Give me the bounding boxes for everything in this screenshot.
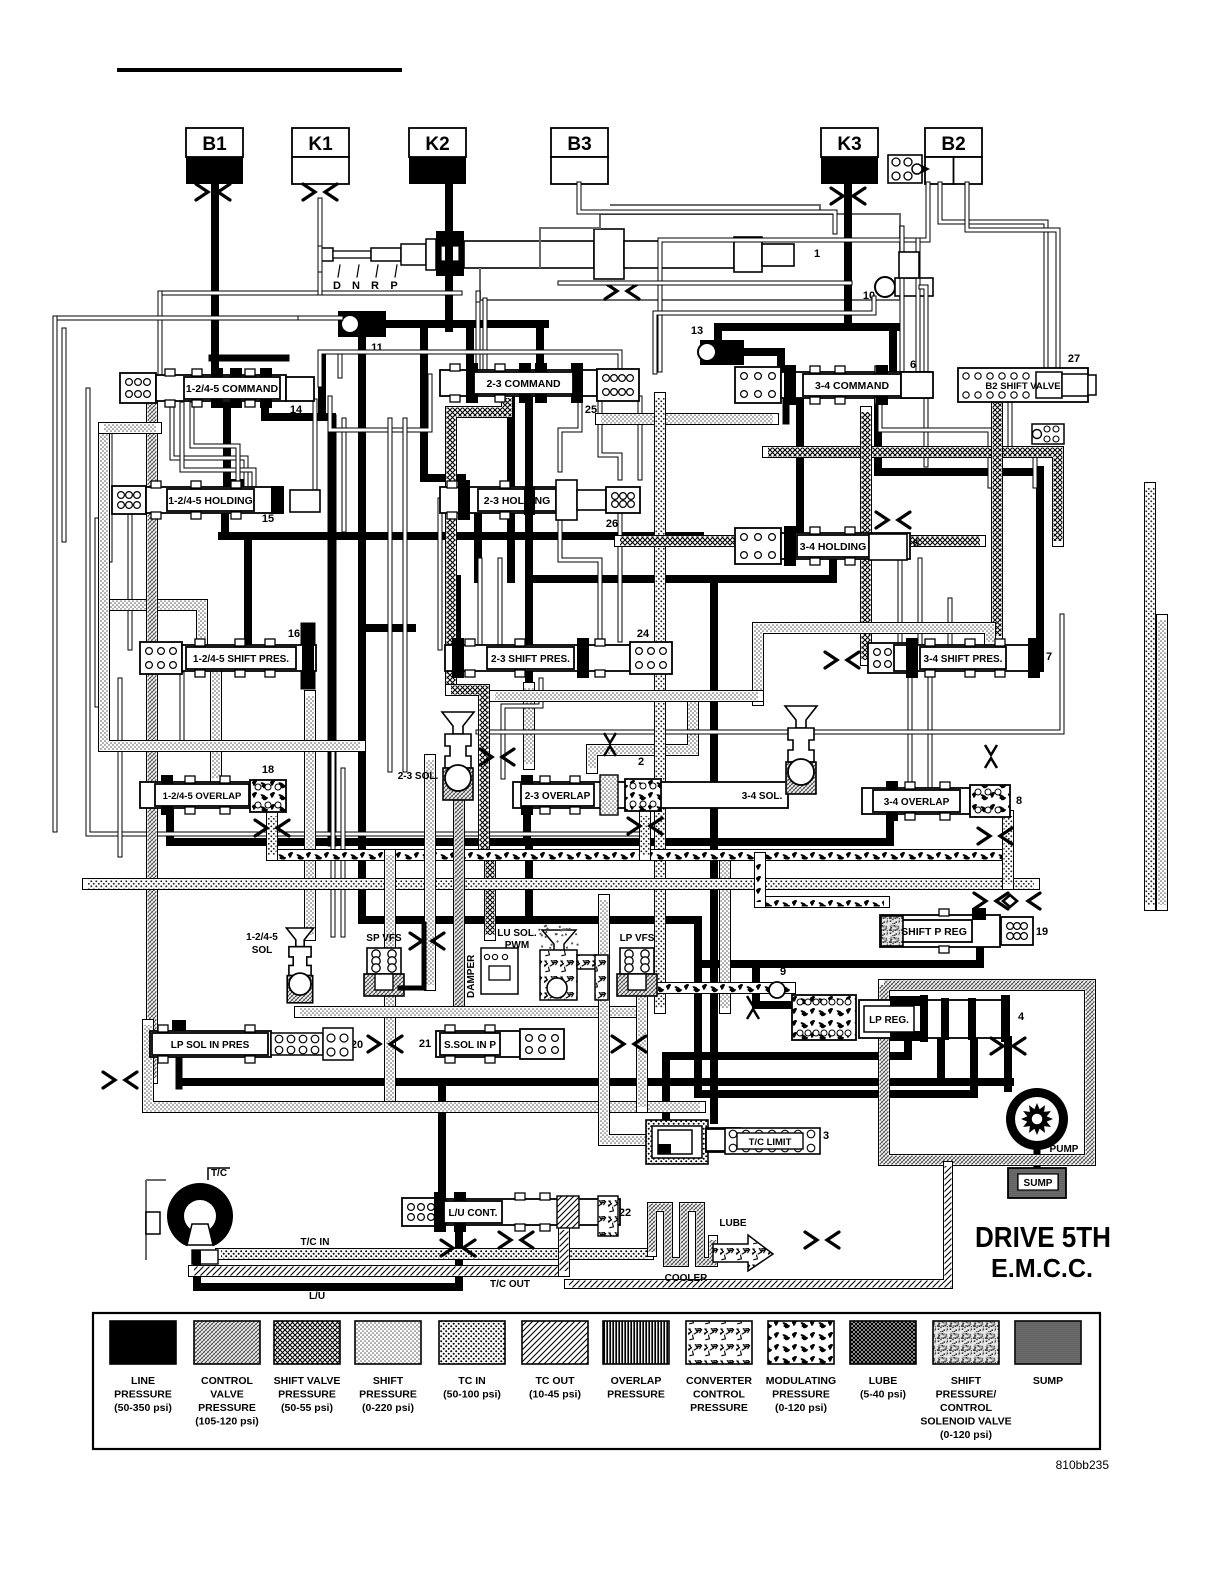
svg-text:1: 1	[814, 248, 820, 260]
gray detent to valve10	[560, 281, 850, 286]
bowtie right of s.sol	[612, 1036, 624, 1052]
legend swatch CONVERTER	[686, 1321, 752, 1364]
bowtie left edge	[103, 1072, 115, 1088]
command frame top	[212, 355, 286, 362]
svg-text:B2: B2	[941, 134, 965, 155]
579 horizontal bus	[529, 575, 833, 583]
svg-text:(50-100 psi): (50-100 psi)	[443, 1389, 501, 1401]
2-3 overlap drop	[886, 820, 894, 842]
legend swatch LUBE	[850, 1321, 916, 1364]
long bus 1082	[180, 1078, 1010, 1086]
shift p reg drop	[752, 968, 760, 988]
svg-text:MODULATING: MODULATING	[766, 1375, 836, 1387]
svg-text:T/C IN: T/C IN	[301, 1237, 330, 1248]
svg-text:SP VFS: SP VFS	[366, 933, 402, 944]
gray verticals below 2-3 holding	[560, 512, 600, 640]
legend swatch SHIFT	[355, 1321, 421, 1364]
svg-text:SHIFT: SHIFT	[373, 1375, 404, 1387]
svg-text:COOLER: COOLER	[665, 1273, 709, 1284]
svg-text:(0-220 psi): (0-220 psi)	[362, 1402, 414, 1414]
svg-text:DRIVE 5TH: DRIVE 5TH	[975, 1222, 1111, 1254]
valve: lp sol in pres	[172, 1020, 186, 1032]
svg-text:3-4 SOL.: 3-4 SOL.	[742, 791, 783, 802]
gray overlap area risers	[180, 674, 185, 746]
solenoid 2-3 SOL	[442, 712, 474, 734]
legend swatch CONTROL	[194, 1321, 260, 1364]
svg-text:SHIFT: SHIFT	[951, 1375, 982, 1387]
bowtie left of 2-3 overlap	[480, 749, 492, 765]
svg-text:13: 13	[691, 325, 703, 337]
svg-text:(10-45 psi): (10-45 psi)	[529, 1389, 581, 1401]
drop x698 from 920	[694, 920, 702, 1094]
svg-text:K2: K2	[425, 134, 449, 155]
bowtie above 3-4 holding	[876, 512, 888, 528]
lp reg outputs staircase	[666, 1040, 908, 1122]
bowtie under K3	[831, 188, 843, 204]
lp vfs to lp reg speckle	[658, 982, 790, 994]
svg-text:16: 16	[288, 628, 300, 640]
gray 10 to right	[921, 287, 926, 465]
svg-text:6: 6	[910, 359, 916, 371]
sp vfs pipe elbow	[400, 924, 424, 988]
check ball block below B2 shift valve	[1032, 424, 1064, 444]
svg-text:LUBE: LUBE	[869, 1375, 898, 1387]
svg-text:1-2/4-5 OVERLAP: 1-2/4-5 OVERLAP	[163, 791, 242, 802]
check 9	[769, 982, 785, 998]
B1 column below command	[227, 406, 243, 498]
overlap left drop	[166, 810, 174, 842]
modulating channel y855	[272, 849, 1008, 861]
svg-text:K3: K3	[837, 134, 861, 155]
bowtie right of 20	[368, 1036, 380, 1052]
svg-text:D: D	[333, 280, 341, 292]
2-3 holding down x527	[525, 515, 533, 690]
valve: 1-2/4-5 shift pres	[140, 642, 182, 674]
3-4 command to 3-4 holding trunk	[796, 398, 804, 540]
svg-text:21: 21	[419, 1038, 431, 1050]
dotted drop from overlap to 855	[266, 816, 278, 855]
tc in channel	[221, 1248, 648, 1260]
svg-text:5: 5	[913, 538, 919, 550]
gray solenoid feeds	[331, 746, 336, 935]
dotted channel y419 between port blocks	[601, 413, 773, 425]
svg-text:2: 2	[638, 756, 644, 768]
1-2/4-5 shift pres left drop	[244, 536, 252, 648]
svg-text:B3: B3	[567, 134, 591, 155]
svg-text:R: R	[371, 280, 379, 292]
gray line from B1/K1 bowties	[160, 291, 460, 296]
svg-text:15: 15	[262, 513, 274, 525]
svg-text:K1: K1	[308, 134, 333, 155]
bowtie under K1	[303, 184, 315, 200]
svg-text:CONTROL: CONTROL	[940, 1402, 992, 1414]
overlap feed channel	[210, 670, 222, 778]
svg-text:PRESSURE: PRESSURE	[278, 1389, 336, 1401]
svg-text:25: 25	[585, 404, 597, 416]
svg-text:T/C LIMIT: T/C LIMIT	[749, 1137, 792, 1148]
svg-text:N: N	[352, 280, 360, 292]
svg-text:1-2/4-5: 1-2/4-5	[246, 932, 278, 943]
3-4 holding bottom to 579 bus	[829, 560, 837, 579]
lu sol channel down	[554, 960, 566, 990]
gray below 2-3 shift pres	[503, 680, 541, 777]
valve: t/c limit	[646, 1120, 708, 1164]
valve: shift p reg	[760, 896, 884, 908]
legend swatch LINE	[110, 1321, 176, 1364]
horizontal channel y696 dotted	[495, 690, 758, 702]
valve: 2-3 shift pres	[445, 645, 630, 671]
3-4 shift pres vertical x1040	[1036, 470, 1044, 668]
svg-text:24: 24	[637, 628, 650, 640]
x362 jog stub	[362, 624, 412, 632]
junction 11	[338, 311, 386, 337]
svg-text:3-4 COMMAND: 3-4 COMMAND	[815, 380, 890, 392]
bowtie under l/u cont	[441, 1240, 453, 1256]
valve: 1-2/4-5 command	[120, 373, 156, 403]
920 bus	[362, 916, 698, 924]
bowtie mid manual	[605, 283, 617, 299]
legend swatch SHIFT	[933, 1321, 999, 1364]
pump	[1006, 1088, 1068, 1150]
svg-text:(5-40 psi): (5-40 psi)	[860, 1389, 906, 1401]
svg-text:PRESSURE: PRESSURE	[690, 1402, 748, 1414]
valve: 2-3 overlap	[513, 782, 788, 808]
svg-text:2-3 OVERLAP: 2-3 OVERLAP	[525, 791, 591, 802]
svg-text:LUBE: LUBE	[719, 1218, 747, 1229]
spring circles	[271, 1033, 323, 1055]
svg-text:4: 4	[1018, 1011, 1025, 1023]
bowtie left of 2-3 overlap	[825, 652, 837, 668]
command frame right	[318, 356, 326, 417]
svg-text:LINE: LINE	[131, 1375, 155, 1387]
svg-text:L/U: L/U	[309, 1291, 325, 1302]
gray from B3	[579, 184, 835, 232]
svg-text:T/C: T/C	[211, 1168, 227, 1179]
svg-text:810bb235: 810bb235	[1056, 1458, 1110, 1472]
svg-text:SUMP: SUMP	[1024, 1178, 1053, 1189]
lp reg left thick line	[756, 988, 790, 1005]
tc out to sump run	[569, 1166, 948, 1284]
536 horizontal bus	[222, 532, 700, 540]
2-3 holding drop second	[474, 515, 482, 579]
svg-text:8: 8	[1016, 795, 1022, 807]
shift pres top feed elbow	[104, 605, 202, 640]
J13 lower trunk	[744, 352, 781, 380]
right tall dotted channels	[991, 402, 1003, 636]
tc housing outline	[146, 1180, 166, 1260]
svg-text:2-3 SOL.: 2-3 SOL.	[398, 771, 439, 782]
channel: solenoid bottoms manifold	[300, 1006, 642, 1018]
clutch box B2	[925, 128, 982, 157]
svg-text:(50-55 psi): (50-55 psi)	[281, 1402, 333, 1414]
svg-text:9: 9	[780, 966, 786, 978]
valve: B2 shift valve	[958, 368, 1088, 402]
2-3 command down x511	[507, 398, 515, 579]
gray right cluster above 2-3 holding	[880, 398, 990, 486]
converter-ctrl blob right of lu	[598, 1196, 618, 1236]
svg-text:B1: B1	[202, 134, 227, 155]
drop from J11 elbow to 2-3 holding	[424, 324, 462, 498]
svg-text:TC IN: TC IN	[458, 1375, 485, 1387]
line pressure trunk from K3	[848, 184, 893, 372]
shift valve channel: command to holding (2-3)	[451, 398, 507, 690]
svg-text:L/U CONT.: L/U CONT.	[449, 1208, 498, 1219]
svg-text:3-4 OVERLAP: 3-4 OVERLAP	[884, 797, 950, 808]
J11 to long center drop	[358, 337, 366, 920]
svg-text:(105-120 psi): (105-120 psi)	[195, 1416, 259, 1428]
sump	[1008, 1168, 1066, 1198]
bowties right of shift p reg	[974, 893, 986, 909]
legend swatch SUMP	[1015, 1321, 1081, 1364]
gray left margin frame	[55, 316, 300, 321]
svg-text:CONVERTER: CONVERTER	[686, 1375, 752, 1387]
svg-text:7: 7	[1046, 651, 1052, 663]
964 bus to shift p reg	[698, 948, 980, 964]
svg-text:B2 SHIFT VALVE: B2 SHIFT VALVE	[985, 381, 1060, 392]
converter control channel frame right	[884, 985, 1090, 1160]
lp sol feed drop	[176, 1057, 183, 1086]
long right vertical x332	[328, 419, 337, 842]
horizontal sv channel y541 right	[620, 535, 980, 547]
svg-text:LP REG.: LP REG.	[869, 1015, 909, 1026]
gray 2-3 shift pres risers	[478, 560, 483, 648]
valve: lp reg	[792, 995, 856, 1040]
s.sol feed drop	[438, 1082, 446, 1197]
svg-text:CONTROL: CONTROL	[693, 1389, 745, 1401]
overlap bottom bus 842	[170, 838, 890, 846]
svg-text:LP VFS: LP VFS	[620, 933, 655, 944]
svg-text:PRESSURE: PRESSURE	[772, 1389, 830, 1401]
svg-text:SHIFT VALVE: SHIFT VALVE	[274, 1375, 341, 1387]
svg-text:LU SOL.: LU SOL.	[497, 928, 537, 939]
drop to 2-3 command right	[536, 324, 544, 372]
gray long verticals center	[388, 420, 393, 770]
detent plate outline	[480, 214, 900, 300]
cooler arrow	[713, 1235, 773, 1271]
LU CONT down and left LU line	[197, 1228, 459, 1287]
spray dots	[538, 925, 579, 949]
svg-text:OVERLAP: OVERLAP	[611, 1375, 662, 1387]
manual selector valve 1	[320, 248, 333, 261]
svg-text:22: 22	[619, 1207, 631, 1219]
bowtie below 3-4 mod box	[978, 828, 990, 844]
gray from J11 circle left	[300, 316, 341, 321]
clutch box K1	[292, 128, 349, 157]
clutch box B1	[186, 128, 243, 157]
svg-text:2-3 SHIFT PRES.: 2-3 SHIFT PRES.	[491, 654, 570, 665]
2-3 command to holding drop	[525, 398, 533, 487]
svg-text:E.M.C.C.: E.M.C.C.	[991, 1253, 1093, 1283]
line pressure trunk from K2	[445, 184, 453, 328]
tc limit feed vertical	[604, 900, 650, 1140]
svg-text:27: 27	[1068, 353, 1080, 365]
gray drop middle	[338, 352, 343, 376]
svg-text:S.SOL IN P: S.SOL IN P	[444, 1040, 496, 1051]
gray 2-3 command risers	[320, 352, 620, 385]
valve: 1-2/4-5 holding	[112, 486, 146, 514]
878 drop from 3-4 command	[874, 398, 882, 472]
J11 horizontal trunk	[386, 320, 545, 328]
svg-text:(0-120 psi): (0-120 psi)	[775, 1402, 827, 1414]
center dotted verticals to solenoid row	[424, 760, 436, 985]
svg-text:SHIFT P REG: SHIFT P REG	[901, 926, 967, 938]
bowtie right of lp reg	[991, 1038, 1003, 1054]
DAMPER	[481, 948, 518, 994]
gray below 3-4 shift pres	[908, 672, 913, 790]
gray K1 drop long	[476, 293, 481, 300]
svg-text:3-4 HOLDING: 3-4 HOLDING	[800, 541, 867, 553]
pump to sump	[1034, 1150, 1041, 1170]
gray far right margin	[940, 184, 1046, 366]
svg-text:1-2/4-5 COMMAND: 1-2/4-5 COMMAND	[186, 383, 279, 395]
tc out channel	[194, 1265, 564, 1277]
bowtie under overlap	[255, 820, 267, 836]
legend swatch OVERLAP	[603, 1321, 669, 1364]
valve: 3-4 command	[735, 367, 781, 403]
svg-text:PUMP: PUMP	[1050, 1144, 1079, 1155]
svg-text:1-2/4-5 HOLDING: 1-2/4-5 HOLDING	[168, 495, 253, 507]
clutch box K3	[821, 128, 878, 157]
valve: 3-4 overlap	[862, 788, 970, 814]
junction 13	[700, 340, 744, 365]
v-chevron near 9	[747, 996, 759, 1006]
svg-text:2-3 COMMAND: 2-3 COMMAND	[486, 378, 561, 390]
lube channel y452 right	[768, 452, 1058, 541]
3-4 command stub to channel	[783, 400, 790, 421]
svg-text:3: 3	[823, 1130, 829, 1142]
svg-text:18: 18	[262, 764, 274, 776]
valve: 3-4 holding	[735, 528, 781, 564]
frame around LP SOL row	[148, 1025, 700, 1107]
svg-text:P: P	[390, 280, 397, 292]
valve: 3-4 shift pres	[868, 643, 908, 673]
2-3 region long drop x714	[710, 579, 718, 1110]
clutch box B3	[551, 128, 608, 157]
valve: 1-2/4-5 overlap	[140, 782, 250, 808]
3-4 sv channel vertical	[860, 412, 872, 660]
gray 3-4 shift pres risers	[898, 560, 903, 644]
svg-text:PRESSURE: PRESSURE	[114, 1389, 172, 1401]
clutch box K2	[409, 128, 466, 157]
drop x714 to t/c limit	[710, 1082, 718, 1120]
svg-text:SOLENOID VALVE: SOLENOID VALVE	[920, 1416, 1011, 1428]
solenoid 3-4 SOL	[785, 706, 817, 728]
gray top right from B2	[660, 184, 928, 370]
svg-text:PRESSURE/: PRESSURE/	[936, 1389, 997, 1401]
valve: 2-3 command	[440, 370, 597, 396]
cv channel top elbow	[104, 428, 360, 746]
svg-text:PRESSURE: PRESSURE	[198, 1402, 256, 1414]
gray from K1 to manual valve	[318, 248, 323, 270]
valve: l/u cont	[402, 1198, 440, 1226]
svg-text:SUMP: SUMP	[1033, 1375, 1063, 1387]
legend swatch SHIFT VALVE	[274, 1321, 340, 1364]
control valve channel left vertical	[146, 403, 158, 1078]
line pressure trunk from B1	[211, 184, 219, 378]
legend swatch TC OUT	[522, 1321, 588, 1364]
svg-text:1-2/4-5 SHIFT PRES.: 1-2/4-5 SHIFT PRES.	[193, 654, 289, 665]
dotted channel y884	[88, 878, 1034, 890]
B2 split line	[953, 157, 955, 184]
v-chevrons above 2-3 overlap	[604, 733, 616, 743]
legend box	[93, 1313, 1100, 1449]
shift pres right end block	[301, 630, 316, 682]
svg-text:VALVE: VALVE	[210, 1389, 243, 1401]
legend swatch TC IN	[439, 1321, 505, 1364]
gray to 3-4 sol	[478, 616, 1062, 732]
check valve 10	[875, 277, 895, 297]
svg-text:3-4 SHIFT PRES.: 3-4 SHIFT PRES.	[924, 654, 1003, 665]
check valve left of B2	[888, 155, 922, 183]
svg-text:PRESSURE: PRESSURE	[359, 1389, 417, 1401]
gray left col below holding	[128, 515, 133, 648]
gray right bus down from B2 area	[900, 228, 905, 372]
title rule	[117, 68, 402, 72]
svg-text:(0-120 psi): (0-120 psi)	[940, 1429, 992, 1441]
gray long under manual valve	[483, 300, 488, 372]
bowtie under B1	[196, 184, 208, 200]
gray column under 1-2/4-5 command	[172, 404, 246, 486]
overlap dotted channel under shift pres (2-3)	[654, 398, 666, 1008]
gray 2-3 command to holding	[560, 398, 580, 470]
legend swatch MODULATING	[768, 1321, 834, 1364]
468 horizontal bus right	[878, 468, 1040, 476]
bowtie right of sp vfs	[410, 933, 422, 949]
svg-text:CONTROL: CONTROL	[201, 1375, 253, 1387]
svg-text:19: 19	[1036, 926, 1048, 938]
v-chevrons above 3-4 overlap	[985, 745, 997, 755]
svg-text:(50-350 psi): (50-350 psi)	[114, 1402, 172, 1414]
svg-text:2-3 HOLDING: 2-3 HOLDING	[484, 495, 551, 507]
J13 upper trunk to 3-4 command	[718, 327, 897, 345]
svg-text:T/C OUT: T/C OUT	[490, 1279, 530, 1290]
svg-text:26: 26	[606, 518, 618, 530]
drop to 2-3 command left	[466, 324, 474, 372]
valve: 2-3 holding	[440, 487, 556, 513]
svg-text:DAMPER: DAMPER	[466, 954, 477, 998]
svg-text:TC OUT: TC OUT	[535, 1375, 575, 1387]
svg-text:LP SOL IN PRES: LP SOL IN PRES	[171, 1040, 250, 1051]
holding to shift pres vertical	[221, 515, 229, 536]
svg-text:PRESSURE: PRESSURE	[607, 1389, 665, 1401]
solenoid 1-2/4-5 SOL	[286, 928, 313, 947]
svg-text:SOL: SOL	[252, 945, 273, 956]
2-3 shift pres drop	[453, 579, 461, 648]
svg-text:14: 14	[290, 404, 303, 416]
2-3 overlap feed channel	[523, 688, 535, 764]
solenoid feed channel	[304, 696, 316, 935]
bowtie under 2-3 overlap mod box	[628, 818, 640, 834]
